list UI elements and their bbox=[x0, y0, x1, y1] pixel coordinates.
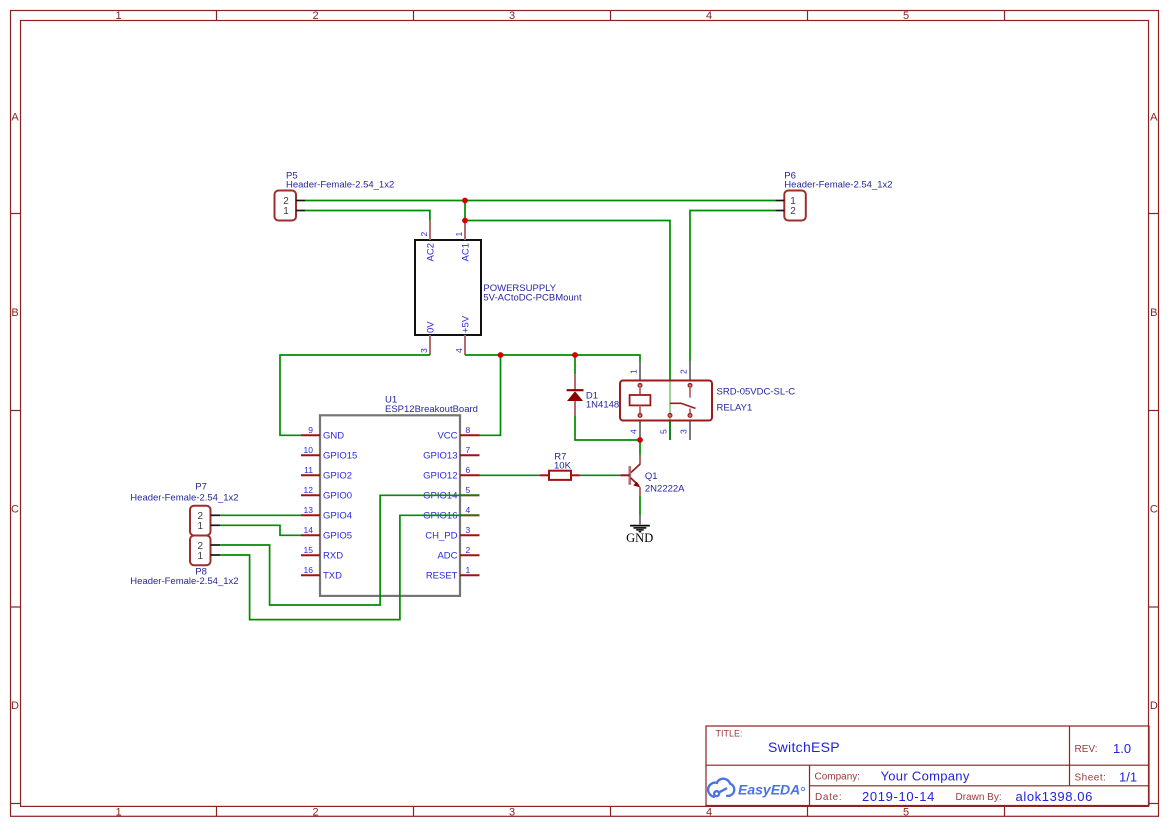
wire net GPIO5: P7 pin1 to U1 pin14 bbox=[220, 525, 301, 535]
svg-text:RELAY1: RELAY1 bbox=[717, 402, 753, 413]
svg-text:2N2222A: 2N2222A bbox=[645, 483, 685, 494]
svg-text:2: 2 bbox=[312, 10, 318, 22]
relay pin 3 stub bbox=[689, 421, 691, 441]
relay common 5 dot bbox=[668, 414, 672, 418]
junction AC-L at 465,220.5 bbox=[462, 218, 468, 224]
diode D1 triangle bbox=[567, 391, 583, 401]
svg-text:alok1398.06: alok1398.06 bbox=[1016, 789, 1093, 804]
relay contact 2 dot bbox=[688, 384, 692, 388]
pin 1 AC1 stub bbox=[464, 221, 466, 241]
svg-text:Drawn By:: Drawn By: bbox=[956, 792, 1002, 803]
relay contact 3 dot bbox=[688, 414, 692, 418]
svg-text:A: A bbox=[1150, 112, 1158, 124]
P8 pin 2 stub bbox=[211, 544, 221, 546]
svg-text:1: 1 bbox=[629, 369, 639, 374]
ground symbol bbox=[630, 526, 650, 532]
P5 pin 1 stub bbox=[296, 210, 305, 212]
P6 pin 2 stub bbox=[775, 210, 784, 212]
wire net BASE: R7 to Q1 base bbox=[580, 474, 621, 476]
svg-text:2: 2 bbox=[419, 232, 429, 237]
P5 pin 2 stub bbox=[296, 200, 305, 202]
svg-text:Header-Female-2.54_1x2: Header-Female-2.54_1x2 bbox=[130, 492, 238, 503]
svg-text:SRD-05VDC-SL-C: SRD-05VDC-SL-C bbox=[717, 386, 796, 397]
svg-text:D: D bbox=[1150, 700, 1158, 712]
wire net +5V: branch to U1 VCC bbox=[480, 355, 501, 435]
Q1 base pin bbox=[620, 474, 629, 476]
U1 pin 15 RXD stub bbox=[301, 554, 320, 556]
U1 pin 13 GPIO4 stub bbox=[301, 514, 320, 516]
svg-text:4: 4 bbox=[454, 348, 464, 353]
svg-text:1/1: 1/1 bbox=[1119, 769, 1137, 784]
svg-text:1: 1 bbox=[198, 551, 204, 562]
svg-text:Sheet:: Sheet: bbox=[1075, 773, 1107, 784]
U1 pin 4 GPIO16 stub bbox=[460, 514, 480, 516]
svg-text:GPIO13: GPIO13 bbox=[423, 451, 457, 462]
Q1 emitter pin bbox=[639, 487, 641, 495]
svg-text:2: 2 bbox=[466, 545, 471, 555]
relay pin 1 stub bbox=[639, 361, 641, 381]
U1 pin 10 GPIO15 stub bbox=[301, 454, 320, 456]
connector P6 Header-Female-2.54_1x2 bbox=[784, 191, 806, 221]
power supply module POWERSUPPLY 5V-ACtoDC-PCBMount bbox=[415, 240, 481, 335]
svg-text:EasyEDA: EasyEDA bbox=[738, 781, 800, 797]
svg-text:GPIO5: GPIO5 bbox=[323, 531, 352, 542]
diode D1 top pin bbox=[574, 374, 576, 390]
connector P8 Header-Female-2.54_1x2 bbox=[190, 536, 211, 566]
svg-text:Header-Female-2.54_1x2: Header-Female-2.54_1x2 bbox=[130, 576, 238, 587]
P8 pin 1 stub bbox=[211, 554, 221, 556]
relay coil lead bottom bbox=[639, 405, 641, 413]
svg-text:RESET: RESET bbox=[426, 571, 458, 582]
svg-text:Q1: Q1 bbox=[645, 471, 658, 482]
svg-text:3: 3 bbox=[466, 525, 471, 535]
svg-text:GND: GND bbox=[323, 431, 344, 442]
svg-text:5: 5 bbox=[903, 10, 909, 22]
svg-text:2: 2 bbox=[312, 806, 318, 818]
svg-text:REV:: REV: bbox=[1075, 744, 1098, 755]
Q1 emitter arrow bbox=[633, 482, 640, 488]
svg-text:C: C bbox=[1150, 504, 1158, 516]
wire net +5V: pin4 to relay pin 1 bbox=[465, 355, 640, 361]
wire net GPIO4: P7 pin2 to U1 pin13 bbox=[220, 514, 301, 516]
svg-text:TITLE:: TITLE: bbox=[716, 728, 743, 738]
svg-text:SwitchESP: SwitchESP bbox=[768, 739, 840, 755]
U1 pin 6 GPIO12 stub bbox=[460, 474, 480, 476]
U1 pin 14 GPIO5 stub bbox=[301, 534, 320, 536]
U1 pin 8 VCC stub bbox=[460, 434, 480, 436]
U1 pin 2 ADC stub bbox=[460, 554, 480, 556]
svg-text:3: 3 bbox=[419, 348, 429, 353]
ground stub bbox=[639, 515, 641, 524]
svg-text:10K: 10K bbox=[554, 460, 572, 471]
svg-text:D: D bbox=[11, 700, 19, 712]
U1 pin 7 GPIO13 stub bbox=[460, 454, 480, 456]
svg-text:9: 9 bbox=[308, 425, 313, 435]
svg-text:GND: GND bbox=[626, 531, 653, 545]
svg-text:RXD: RXD bbox=[323, 551, 343, 562]
P6 pin 1 stub bbox=[775, 200, 784, 202]
svg-text:14: 14 bbox=[304, 525, 314, 535]
U1 pin 16 TXD stub bbox=[301, 574, 320, 576]
wire net COIL: junction to Q1 collector bbox=[639, 440, 641, 456]
wire net +5V: branch to D1 cathode bbox=[574, 355, 576, 374]
U1 pin 1 RESET stub bbox=[460, 574, 480, 576]
svg-text:7: 7 bbox=[466, 445, 471, 455]
svg-text:8: 8 bbox=[466, 425, 471, 435]
svg-text:2: 2 bbox=[679, 369, 689, 374]
svg-text:5: 5 bbox=[659, 429, 669, 434]
relay coil bbox=[630, 395, 651, 405]
U1 pin 5 GPIO14 stub bbox=[460, 494, 480, 496]
svg-text:16: 16 bbox=[304, 565, 314, 575]
svg-text:Company:: Company: bbox=[815, 772, 861, 783]
diode D1 cathode bar bbox=[567, 389, 584, 391]
title block bbox=[706, 726, 1149, 806]
svg-text:11: 11 bbox=[304, 465, 313, 475]
wire net AC-L: P5 pin2 to P6 pin1 bbox=[305, 200, 775, 202]
svg-text:Header-Female-2.54_1x2: Header-Female-2.54_1x2 bbox=[286, 179, 394, 190]
connector P7 Header-Female-2.54_1x2 bbox=[190, 506, 211, 536]
relay coil terminal dot bottom bbox=[638, 414, 642, 418]
IC U1 ESP12BreakoutBoard body bbox=[320, 415, 460, 596]
svg-text:CH_PD: CH_PD bbox=[425, 531, 457, 542]
relay RELAY1 SRD-05VDC-SL-C body bbox=[620, 381, 712, 421]
P7 pin 2 stub bbox=[211, 514, 221, 516]
svg-text:1: 1 bbox=[198, 521, 204, 532]
wire net AC-N: P5 pin1 to AC2 bbox=[305, 211, 430, 221]
svg-text:+5V: +5V bbox=[461, 315, 472, 333]
svg-text:AC2: AC2 bbox=[426, 243, 437, 261]
R7 right pin bbox=[571, 474, 580, 476]
wire AC-L junction drop to AC1 bbox=[464, 201, 466, 221]
pin 4 +5V stub bbox=[464, 335, 466, 355]
svg-text:5: 5 bbox=[903, 806, 909, 818]
svg-text:Your Company: Your Company bbox=[881, 768, 970, 783]
transistor Q1 collector pin bbox=[639, 456, 641, 465]
svg-text:13: 13 bbox=[304, 505, 314, 515]
wire net GND: U1 pin9 to 0V bbox=[280, 355, 430, 435]
svg-text:3: 3 bbox=[509, 10, 515, 22]
junction +5V at 575,355 bbox=[572, 352, 578, 358]
connector P5 Header-Female-2.54_1x2 bbox=[275, 191, 297, 221]
diode D1 bottom pin bbox=[574, 401, 576, 415]
svg-text:Header-Female-2.54_1x2: Header-Female-2.54_1x2 bbox=[784, 179, 892, 190]
svg-text:15: 15 bbox=[304, 545, 314, 555]
svg-text:B: B bbox=[11, 307, 18, 319]
U1 pin 3 CH_PD stub bbox=[460, 534, 480, 536]
U1 pin 11 GPIO2 stub bbox=[301, 474, 320, 476]
svg-text:4: 4 bbox=[706, 10, 712, 22]
wire net GPIO16: P8 pin1 to U1 pin4 bbox=[220, 515, 479, 619]
svg-text:2: 2 bbox=[790, 206, 796, 217]
svg-text:TXD: TXD bbox=[323, 571, 342, 582]
svg-text:B: B bbox=[1150, 307, 1157, 319]
EasyEDA logo bbox=[708, 779, 805, 798]
svg-text:5V-ACtoDC-PCBMount: 5V-ACtoDC-PCBMount bbox=[483, 293, 582, 304]
junction +5V at 500.5,355 bbox=[498, 352, 504, 358]
wire net EMITTER: Q1 to ground bbox=[639, 496, 641, 515]
relay coil lead top bbox=[639, 387, 641, 395]
wire net NO: P6 pin2 to relay pin 2 bbox=[690, 211, 775, 362]
Q1 emitter diagonal bbox=[631, 478, 639, 485]
svg-text:4: 4 bbox=[466, 505, 471, 515]
svg-text:1: 1 bbox=[115, 806, 121, 818]
svg-text:12: 12 bbox=[304, 485, 314, 495]
svg-text:1.0: 1.0 bbox=[1113, 741, 1131, 756]
relay pin 2 stub bbox=[689, 361, 691, 381]
svg-text:ADC: ADC bbox=[437, 551, 457, 562]
svg-text:6: 6 bbox=[466, 465, 471, 475]
svg-text:VCC: VCC bbox=[437, 431, 457, 442]
Q1 collector diagonal bbox=[631, 464, 641, 473]
wire net COIL: D1 anode to relay pin 4 bbox=[575, 415, 640, 440]
Q1 base bar bbox=[628, 466, 631, 485]
relay contact 3 lead bbox=[689, 409, 691, 414]
junction COIL at 640,440 bbox=[637, 437, 643, 443]
junction AC-L at 465,200.5 bbox=[462, 198, 468, 204]
U1 pin 12 GPIO0 stub bbox=[301, 494, 320, 496]
svg-text:GPIO0: GPIO0 bbox=[323, 491, 352, 502]
resistor R7 body bbox=[549, 471, 571, 480]
relay contact 2 lead bbox=[689, 387, 691, 398]
svg-text:ESP12BreakoutBoard: ESP12BreakoutBoard bbox=[385, 404, 478, 415]
U1 pin 9 GND stub bbox=[301, 434, 320, 436]
pin 2 AC2 stub bbox=[429, 221, 431, 241]
svg-text:GPIO12: GPIO12 bbox=[423, 471, 457, 482]
svg-text:1: 1 bbox=[454, 232, 464, 237]
svg-text:5: 5 bbox=[466, 485, 471, 495]
svg-text:Date:: Date: bbox=[815, 792, 842, 803]
svg-text:GPIO15: GPIO15 bbox=[323, 451, 357, 462]
svg-text:3: 3 bbox=[679, 429, 689, 434]
svg-text:3: 3 bbox=[509, 806, 515, 818]
svg-text:1: 1 bbox=[466, 565, 471, 575]
svg-text:1: 1 bbox=[115, 10, 121, 22]
relay coil terminal dot top bbox=[638, 384, 642, 388]
svg-text:1N4148: 1N4148 bbox=[586, 399, 619, 410]
svg-text:4: 4 bbox=[629, 429, 639, 434]
svg-text:C: C bbox=[11, 504, 19, 516]
wire net GPIO14: P8 pin2 to U1 pin5 bbox=[220, 495, 479, 605]
svg-text:10: 10 bbox=[304, 445, 314, 455]
R7 left pin bbox=[540, 474, 549, 476]
svg-text:0V: 0V bbox=[426, 321, 437, 333]
svg-text:4: 4 bbox=[706, 806, 712, 818]
svg-text:2019-10-14: 2019-10-14 bbox=[862, 789, 935, 804]
pin 3 0V stub bbox=[429, 335, 431, 355]
svg-text:P7: P7 bbox=[195, 481, 207, 492]
svg-text:A: A bbox=[11, 112, 19, 124]
svg-text:GPIO2: GPIO2 bbox=[323, 471, 352, 482]
relay pin 5 stub bbox=[669, 421, 671, 441]
wire net GPIO12: U1 pin6 to R7 bbox=[480, 474, 541, 476]
relay pin 4 stub bbox=[639, 421, 641, 441]
P7 pin 1 stub bbox=[211, 524, 221, 526]
wire net AC-L: junction to relay pin 5 bbox=[465, 221, 670, 441]
svg-text:GPIO4: GPIO4 bbox=[323, 511, 352, 522]
svg-text:1: 1 bbox=[283, 206, 289, 217]
relay armature bbox=[670, 403, 696, 408]
svg-text:AC1: AC1 bbox=[461, 243, 472, 261]
